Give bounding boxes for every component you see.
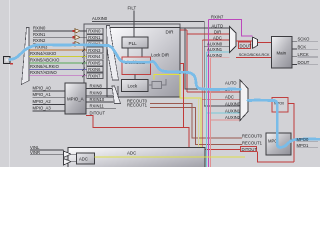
svg-text:RXIN3: RXIN3	[88, 48, 101, 53]
op-amp ADC R	[64, 159, 72, 166]
pin BCK	[292, 44, 318, 49]
svg-text:ADC: ADC	[127, 151, 136, 156]
wire RXIN4 ASKIO	[29, 51, 87, 58]
node AUXIN0 label	[92, 16, 108, 21]
svg-text:RXIN6/ALRKIO: RXIN6/ALRKIO	[30, 64, 60, 69]
wire DOUT to Main	[258, 42, 272, 44]
svg-text:SCKO/BCK/LRCK: SCKO/BCK/LRCK	[239, 53, 270, 57]
op-amp ADC L	[64, 151, 72, 158]
transistor receiver RXIN0	[72, 29, 87, 34]
svg-text:ADC: ADC	[213, 35, 222, 40]
bus wedge MPIO_A to DIR	[112, 86, 121, 104]
multiplexer MUX1	[230, 27, 237, 53]
block Main	[272, 37, 293, 69]
pin RECOUT1	[242, 141, 263, 146]
page edge line	[9, 0, 10, 167]
pin RXIN2 box	[87, 41, 103, 47]
wire VINR	[30, 150, 64, 155]
svg-text:FILT: FILT	[128, 6, 137, 11]
wire RXIN6 ALRKIO	[29, 64, 87, 71]
wire RXIN0	[33, 25, 72, 31]
block ADC inner	[77, 153, 95, 164]
wire ClockData to Lock	[134, 75, 136, 80]
block ClockData highlighted	[122, 57, 151, 75]
svg-text:AUXIN0: AUXIN0	[207, 42, 223, 47]
svg-text:RXIN4/ASKIO: RXIN4/ASKIO	[30, 51, 57, 56]
node DITOUT highlighted	[241, 147, 258, 152]
svg-text:RXIN7: RXIN7	[211, 14, 224, 19]
wire RXIN5 ABCKIO	[29, 57, 87, 64]
pin RXIN0 box	[87, 28, 103, 34]
svg-text:DITOUT: DITOUT	[90, 110, 106, 115]
wire ADC out yellow	[95, 156, 246, 158]
svg-text:RXIN11: RXIN11	[90, 104, 105, 109]
junction box right of Lock	[148, 79, 166, 89]
wire mux1 out	[236, 40, 252, 42]
node port red tick	[10, 63, 13, 64]
svg-text:RXIN9: RXIN9	[90, 90, 103, 95]
svg-text:AUXIN1: AUXIN1	[207, 47, 223, 52]
svg-text:BCK: BCK	[298, 44, 307, 49]
svg-text:DIR: DIR	[166, 29, 175, 34]
pin MPO1	[297, 143, 319, 148]
wire RXIN7 magenta to DOUT mux	[208, 14, 252, 167]
wire RECOUT1	[127, 103, 242, 145]
svg-text:RXIN1: RXIN1	[88, 35, 101, 40]
node FILT	[128, 6, 137, 11]
wire RXIN1	[33, 32, 72, 38]
svg-text:DIR: DIR	[214, 29, 221, 34]
svg-text:RXIN10: RXIN10	[90, 97, 105, 102]
pin RXIN6 box	[87, 67, 103, 73]
pin RXIN4 box	[87, 54, 103, 60]
svg-text:RXIN7/ADINO: RXIN7/ADINO	[30, 70, 58, 75]
svg-text:ADC: ADC	[225, 94, 234, 99]
svg-text:RXIN7: RXIN7	[88, 73, 101, 78]
wire AUXIN2 pink	[210, 58, 240, 167]
svg-text:RECOUT1: RECOUT1	[127, 103, 148, 108]
svg-text:AUXIN1: AUXIN1	[225, 108, 241, 113]
wire FILT to PLL	[133, 11, 135, 38]
svg-text:RECOUT1: RECOUT1	[242, 141, 263, 146]
wire red box to right	[258, 104, 295, 163]
svg-text:MPIO_A0: MPIO_A0	[33, 86, 52, 91]
svg-text:MPIO_A: MPIO_A	[67, 97, 84, 102]
svg-text:AUXIN0: AUXIN0	[225, 101, 241, 106]
svg-text:MPIO_A3: MPIO_A3	[33, 106, 52, 111]
wire highlighted blue net	[10, 45, 320, 148]
svg-text:RXIN4: RXIN4	[88, 54, 101, 59]
svg-text:DOUT: DOUT	[298, 60, 310, 65]
transistor receiver RXIN1	[72, 35, 87, 40]
pin SCKO	[292, 37, 318, 42]
node DOUT highlighted	[239, 42, 252, 48]
svg-text:RECOUT0: RECOUT0	[242, 134, 263, 139]
wire RXIN2	[33, 38, 72, 44]
wire ADC net red	[202, 40, 240, 147]
wire red aux vertical	[180, 64, 184, 128]
pin RECOUT0	[242, 134, 263, 139]
block DIR outer boundary	[84, 24, 180, 97]
mux1 input labels	[212, 24, 224, 29]
svg-text:RXIN0: RXIN0	[88, 29, 101, 34]
svg-text:VINR: VINR	[30, 150, 40, 155]
bus wedge into DIR pins	[107, 26, 119, 81]
block MPIO_A	[65, 83, 86, 114]
pin RXIN3 box	[87, 47, 103, 53]
pin LRCK	[292, 52, 318, 57]
wires MPIO_A inputs	[33, 86, 66, 92]
svg-text:Lock: Lock	[128, 84, 138, 89]
pin DOUT	[292, 60, 318, 65]
svg-text:AUXIN0: AUXIN0	[92, 16, 108, 21]
pin RXIN1 box	[87, 35, 103, 41]
mux2 input labels	[225, 81, 237, 86]
wire AUTO net	[180, 28, 240, 89]
op-amp PLL box U-PLL	[122, 37, 148, 48]
node red box MPO0	[272, 98, 288, 113]
svg-text:RXIN8: RXIN8	[90, 84, 103, 89]
wire SCKO BCK LRCK	[236, 53, 272, 58]
svg-text:AUXIN2: AUXIN2	[207, 53, 223, 58]
svg-text:RXIN6: RXIN6	[88, 67, 101, 72]
svg-text:AUTO: AUTO	[225, 81, 237, 86]
svg-text:Main: Main	[277, 51, 287, 56]
svg-text:LRCK: LRCK	[298, 52, 309, 57]
transistor receiver RXIN2	[72, 41, 87, 46]
wire DIR net red	[180, 30, 240, 92]
svg-text:PLL: PLL	[129, 41, 138, 46]
svg-text:AUXIN2: AUXIN2	[225, 115, 241, 120]
node Lock DIR	[151, 53, 169, 58]
pin MPO0	[297, 137, 319, 142]
wire DITOUT red from MPIO_A	[86, 110, 241, 149]
wire RECOUT0	[127, 98, 242, 138]
block DIR	[107, 28, 180, 98]
block Lock	[122, 80, 149, 92]
wire amp to adc	[71, 154, 77, 162]
wire pale yellow	[198, 99, 200, 167]
svg-text:RXIN2: RXIN2	[33, 38, 46, 43]
block MPO	[266, 133, 291, 155]
svg-text:SCKO: SCKO	[298, 37, 311, 42]
wire VINL	[30, 145, 64, 150]
svg-text:Lock DIR: Lock DIR	[151, 53, 169, 58]
wire RXIN3	[29, 45, 87, 52]
svg-text:MPIO_A2: MPIO_A2	[33, 99, 52, 104]
svg-text:DITOUT: DITOUT	[242, 147, 258, 152]
svg-text:AUTO: AUTO	[212, 24, 224, 29]
svg-text:MPIO_A1: MPIO_A1	[33, 92, 52, 97]
pin RXIN5 box	[87, 60, 103, 66]
svg-text:ADC: ADC	[79, 157, 88, 162]
multiplexer MUX2	[240, 80, 248, 121]
pin RXIN7 box	[87, 73, 103, 79]
svg-text:RXIN5: RXIN5	[88, 61, 101, 66]
port P1	[4, 57, 11, 64]
wire PLL to ClockData	[128, 48, 142, 57]
wire AUXIN0	[92, 22, 240, 107]
svg-text:RXIN1: RXIN1	[33, 32, 46, 37]
svg-text:RXIN5/ABCKIO: RXIN5/ABCKIO	[30, 57, 60, 62]
svg-text:DOUT: DOUT	[240, 43, 252, 48]
wire RXIN7 ADINO	[29, 70, 87, 77]
block ADC	[68, 148, 205, 170]
wires MPIO_A outputs RXIN8-11	[86, 84, 113, 89]
multiplexer MUX DOUT	[252, 37, 257, 48]
wire AUXIN1 cyan	[206, 52, 240, 167]
svg-text:RXIN0: RXIN0	[33, 25, 46, 30]
wire yellow Lock loop	[154, 75, 201, 148]
bus ripper sail left	[22, 28, 30, 85]
